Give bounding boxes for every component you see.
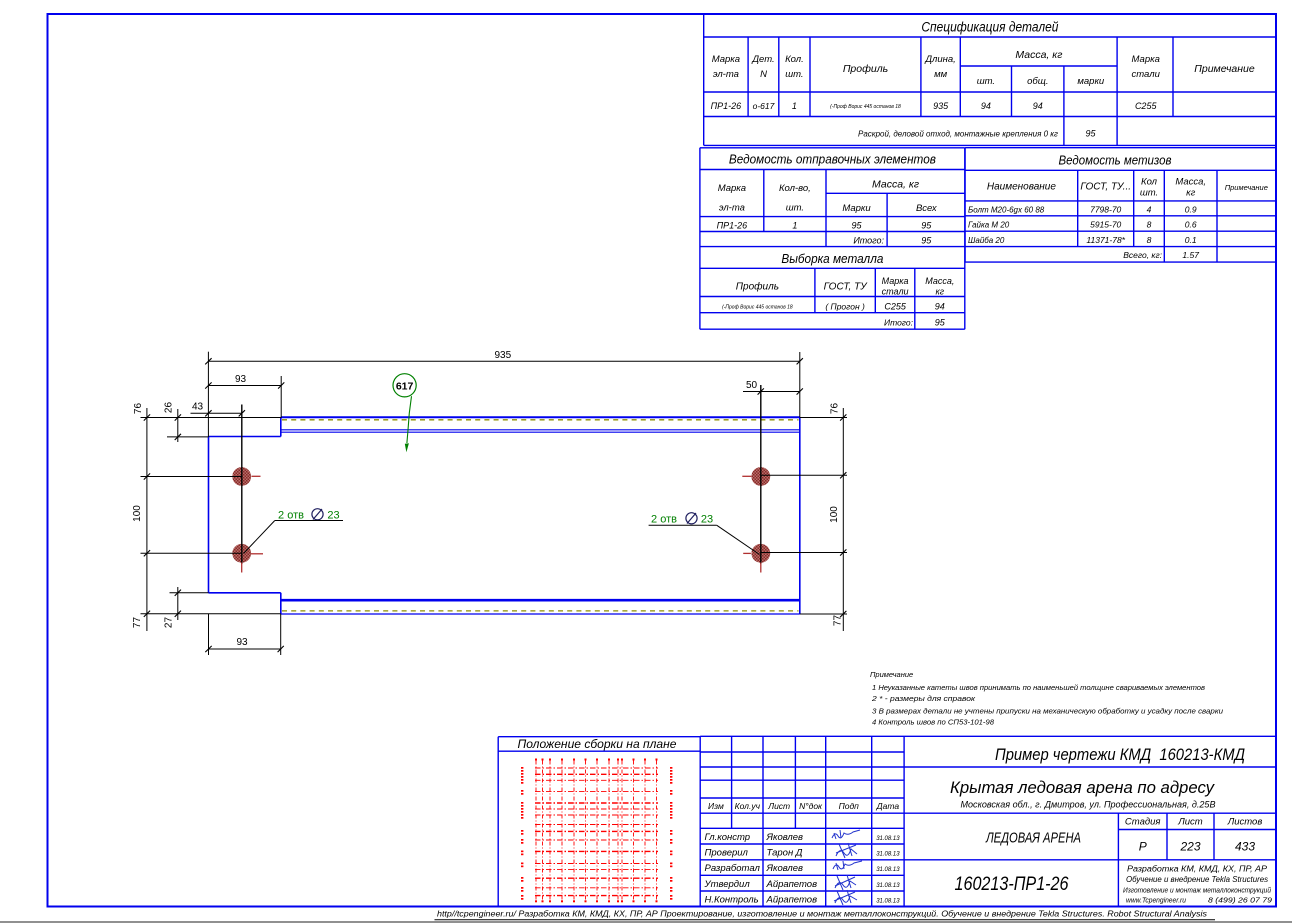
svg-text:100: 100 bbox=[829, 506, 840, 523]
hole crosshair red ticks bbox=[252, 475, 261, 477]
svg-text:кг: кг bbox=[1186, 188, 1195, 199]
svg-text:2 * - размеры для справок: 2 * - размеры для справок bbox=[871, 694, 976, 703]
svg-text:С255: С255 bbox=[884, 302, 907, 312]
svg-text:ГОСТ, ТУ: ГОСТ, ТУ bbox=[824, 282, 869, 293]
svg-text:ГОСТ, ТУ...: ГОСТ, ТУ... bbox=[1080, 182, 1131, 193]
extension lines right bbox=[800, 417, 847, 419]
svg-text:Дата: Дата bbox=[876, 801, 900, 811]
svg-text:Изм: Изм bbox=[708, 801, 724, 811]
svg-text:http//tcpengineer.ru/ Разраб: http//tcpengineer.ru/ Разработка КМ, КМД… bbox=[437, 909, 1208, 919]
svg-text:223: 223 bbox=[1179, 840, 1200, 854]
svg-text:95: 95 bbox=[1085, 129, 1096, 139]
svg-text:Дет.: Дет. bbox=[751, 54, 774, 65]
svg-text:Примечание: Примечание bbox=[870, 670, 913, 679]
svg-text:7798-70: 7798-70 bbox=[1090, 205, 1121, 215]
svg-text:мм: мм bbox=[934, 69, 948, 80]
svg-text:Выборка металла: Выборка металла bbox=[781, 251, 883, 266]
svg-text:(-Проф Ворис 445 останов 18: (-Проф Ворис 445 останов 18 bbox=[830, 104, 901, 110]
svg-text:27: 27 bbox=[164, 617, 175, 629]
svg-text:шт.: шт. bbox=[977, 76, 995, 87]
svg-text:Кол-во,: Кол-во, bbox=[779, 183, 811, 194]
svg-text:Ведомость отправочных элементо: Ведомость отправочных элементов bbox=[729, 152, 936, 167]
svg-text:43: 43 bbox=[192, 401, 204, 412]
box: Положение сборки на плане bbox=[498, 737, 700, 907]
svg-text:Яковлев: Яковлев bbox=[766, 863, 804, 874]
dimension 27 bbox=[177, 587, 179, 620]
signatures (blue scribbles) bbox=[832, 830, 862, 905]
dimension 93 top bbox=[208, 385, 281, 387]
svg-text:Проверил: Проверил bbox=[705, 847, 749, 858]
svg-text:Итого:: Итого: bbox=[853, 236, 884, 246]
svg-text:шт.: шт. bbox=[785, 69, 803, 80]
svg-text:4 Контроль швов по СП53-101-9: 4 Контроль швов по СП53-101-98 bbox=[872, 718, 995, 727]
svg-text:1: 1 bbox=[792, 101, 797, 111]
svg-text:Яковлев: Яковлев bbox=[766, 832, 804, 843]
svg-text:95: 95 bbox=[935, 318, 946, 328]
svg-text:Длина,: Длина, bbox=[924, 54, 955, 65]
bottom grey strip bbox=[0, 921, 1292, 923]
svg-text:1 Неуказанные катеты швов при: 1 Неуказанные катеты швов принимать по н… bbox=[872, 683, 1205, 692]
svg-text:стали: стали bbox=[882, 287, 909, 297]
hole top-left d23 bbox=[232, 467, 251, 486]
svg-text:Раскрой, деловой отход, монтаж: Раскрой, деловой отход, монтажные крепле… bbox=[858, 130, 1058, 139]
svg-text:N°док: N°док bbox=[799, 801, 823, 811]
svg-text:11371-78*: 11371-78* bbox=[1086, 235, 1125, 245]
svg-text:Изготовление и монтаж металлок: Изготовление и монтаж металлоконструкций bbox=[1123, 886, 1272, 895]
svg-text:Марка: Марка bbox=[712, 54, 740, 65]
red grid plan bbox=[535, 761, 658, 900]
svg-text:26: 26 bbox=[164, 402, 175, 414]
svg-text:Утвердил: Утвердил bbox=[704, 879, 751, 890]
svg-text:ЛЕДОВАЯ АРЕНА: ЛЕДОВАЯ АРЕНА bbox=[985, 830, 1081, 847]
svg-text:77: 77 bbox=[833, 615, 844, 627]
svg-text:31.08.13: 31.08.13 bbox=[876, 898, 900, 904]
svg-text:Лист: Лист bbox=[1177, 817, 1203, 828]
svg-text:ПР1-26: ПР1-26 bbox=[717, 220, 748, 230]
svg-text:Спецификация деталей: Спецификация деталей bbox=[921, 20, 1058, 35]
svg-text:0.1: 0.1 bbox=[1185, 235, 1197, 245]
svg-text:31.08.13: 31.08.13 bbox=[876, 883, 900, 889]
svg-text:935: 935 bbox=[494, 350, 511, 361]
svg-text:кг: кг bbox=[935, 287, 944, 297]
svg-text:Р: Р bbox=[1139, 840, 1147, 854]
svg-text:76: 76 bbox=[830, 403, 841, 415]
svg-text:93: 93 bbox=[235, 374, 247, 385]
svg-text:марки: марки bbox=[1077, 76, 1105, 87]
svg-text:ПР1-26: ПР1-26 bbox=[711, 101, 742, 111]
hole bottom-right d23 bbox=[751, 544, 770, 563]
svg-text:Н.Контроль: Н.Контроль bbox=[705, 894, 759, 905]
svg-text:Масса, кг: Масса, кг bbox=[872, 179, 919, 191]
svg-text:Ведомость метизов: Ведомость метизов bbox=[1059, 153, 1172, 168]
svg-text:Тарон Д: Тарон Д bbox=[767, 847, 803, 858]
svg-text:С255: С255 bbox=[1135, 101, 1158, 111]
svg-text:www.Tcpengineer.ru: www.Tcpengineer.ru bbox=[1126, 896, 1187, 905]
svg-text:8 (499) 26 07 79: 8 (499) 26 07 79 bbox=[1208, 896, 1273, 905]
svg-text:Болт М20-6gх 60 88: Болт М20-6gх 60 88 bbox=[968, 206, 1045, 215]
svg-text:Разработал: Разработал bbox=[705, 863, 761, 874]
svg-text:Кол.уч: Кол.уч bbox=[735, 801, 761, 811]
svg-text:Крытая ледовая арена по адресу: Крытая ледовая арена по адресу bbox=[950, 779, 1216, 797]
dimension 50 bbox=[743, 391, 800, 393]
table: Спецификация деталей bbox=[704, 14, 1276, 145]
svg-text:Пример чертежи КМД 160213-КМД: Пример чертежи КМД 160213-КМД bbox=[995, 746, 1245, 764]
hole bottom-left d23 bbox=[232, 544, 251, 563]
hole centerlines bbox=[241, 405, 243, 565]
title block: revision/signature table bbox=[700, 736, 1276, 906]
svg-text:Московская обл., г. Дмитров, у: Московская обл., г. Дмитров, ул. Професс… bbox=[961, 800, 1216, 810]
svg-text:Подп: Подп bbox=[839, 801, 860, 811]
svg-text:Итого:: Итого: bbox=[884, 318, 914, 328]
svg-text:0.6: 0.6 bbox=[1185, 220, 1197, 230]
svg-text:Гайка М 20: Гайка М 20 bbox=[968, 221, 1010, 230]
svg-text:5915-70: 5915-70 bbox=[1090, 220, 1121, 230]
svg-text:Разработка КМ, КМД, КХ, ПР, АР: Разработка КМ, КМД, КХ, ПР, АР bbox=[1127, 865, 1268, 874]
svg-text:Лист: Лист bbox=[767, 801, 790, 811]
svg-text:Кол.: Кол. bbox=[785, 54, 804, 65]
svg-text:Масса,: Масса, bbox=[925, 276, 954, 286]
svg-text:8: 8 bbox=[1147, 235, 1152, 245]
svg-text:Обучение и внедрение Tekla St: Обучение и внедрение Tekla Structures bbox=[1126, 875, 1268, 884]
svg-text:0.9: 0.9 bbox=[1185, 205, 1197, 215]
svg-text:Наименование: Наименование bbox=[987, 182, 1056, 193]
svg-text:Марка: Марка bbox=[882, 276, 909, 286]
svg-text:общ.: общ. bbox=[1027, 76, 1048, 87]
svg-text:31.08.13: 31.08.13 bbox=[876, 851, 900, 857]
svg-text:о-617: о-617 bbox=[753, 101, 775, 111]
svg-text:94: 94 bbox=[935, 302, 945, 312]
dimension 26 bbox=[177, 409, 179, 442]
svg-text:2 отв: 2 отв bbox=[278, 510, 304, 522]
svg-text:Шайба 20: Шайба 20 bbox=[968, 236, 1005, 245]
svg-text:Примечание: Примечание bbox=[1225, 183, 1268, 192]
svg-text:8: 8 bbox=[1147, 220, 1152, 230]
svg-text:Всего, кг:: Всего, кг: bbox=[1123, 250, 1162, 260]
svg-text:Айрапетов: Айрапетов bbox=[766, 894, 818, 905]
svg-text:77: 77 bbox=[132, 617, 143, 629]
svg-text:шт.: шт. bbox=[786, 203, 804, 214]
svg-text:23: 23 bbox=[701, 514, 713, 526]
svg-text:Айрапетов: Айрапетов bbox=[766, 879, 818, 890]
svg-text:31.08.13: 31.08.13 bbox=[876, 867, 900, 873]
svg-text:93: 93 bbox=[236, 637, 248, 648]
svg-text:94: 94 bbox=[981, 101, 991, 111]
detail marker 617 bbox=[393, 374, 416, 397]
svg-text:95: 95 bbox=[921, 236, 932, 246]
svg-text:Стадия: Стадия bbox=[1125, 817, 1161, 828]
svg-text:1.57: 1.57 bbox=[1182, 250, 1199, 260]
svg-text:2 отв: 2 отв bbox=[651, 514, 677, 526]
svg-text:Масса,: Масса, bbox=[1175, 177, 1206, 188]
svg-text:4: 4 bbox=[1147, 205, 1152, 215]
dimension 93 bottom bbox=[209, 648, 281, 650]
svg-text:100: 100 bbox=[132, 505, 143, 522]
svg-text:Масса, кг: Масса, кг bbox=[1015, 49, 1062, 61]
svg-text:( Прогон ): ( Прогон ) bbox=[825, 302, 865, 312]
right dimension line 76/100/77 bbox=[842, 408, 844, 631]
svg-text:94: 94 bbox=[1033, 101, 1043, 111]
svg-text:50: 50 bbox=[746, 380, 758, 391]
svg-text:160213-ПР1-26: 160213-ПР1-26 bbox=[955, 874, 1069, 895]
table: Ведомость метизов bbox=[965, 148, 1275, 262]
svg-text:Примечание: Примечание bbox=[1194, 63, 1255, 75]
svg-text:617: 617 bbox=[396, 380, 414, 392]
dimension 43 bbox=[191, 412, 242, 414]
svg-text:Профиль: Профиль bbox=[843, 63, 888, 75]
svg-text:76: 76 bbox=[133, 403, 144, 415]
svg-text:Листов: Листов bbox=[1227, 817, 1263, 828]
svg-text:шт.: шт. bbox=[1140, 188, 1158, 199]
svg-text:23: 23 bbox=[327, 510, 339, 522]
svg-text:Кол: Кол bbox=[1141, 177, 1158, 188]
dimension 935 bbox=[208, 360, 799, 362]
left dimension line 76/100/77 bbox=[146, 408, 148, 631]
svg-text:Марка: Марка bbox=[1132, 54, 1160, 65]
svg-text:31.08.13: 31.08.13 bbox=[876, 836, 900, 842]
svg-text:Всех: Всех bbox=[916, 203, 938, 214]
svg-text:Гл.констр: Гл.констр bbox=[705, 832, 751, 843]
svg-text:95: 95 bbox=[921, 220, 932, 230]
svg-text:433: 433 bbox=[1235, 840, 1255, 854]
svg-text:Положение сборки на плане: Положение сборки на плане bbox=[518, 739, 677, 751]
svg-text:3 В размерах детали не учтены: 3 В размерах детали не учтены припуски н… bbox=[872, 707, 1224, 716]
svg-text:Марка: Марка bbox=[718, 183, 746, 194]
hole top-right d23 bbox=[751, 467, 770, 486]
svg-text:(-Проф Ворис 445 останов 18: (-Проф Ворис 445 останов 18 bbox=[722, 305, 793, 311]
svg-text:N: N bbox=[760, 69, 767, 80]
plate outline (blue) bbox=[209, 417, 800, 614]
svg-text:95: 95 bbox=[851, 220, 862, 230]
svg-text:эл-та: эл-та bbox=[719, 203, 745, 214]
table: Ведомость отправочных элементов bbox=[700, 148, 965, 329]
svg-text:стали: стали bbox=[1132, 69, 1161, 80]
svg-text:эл-та: эл-та bbox=[713, 69, 739, 80]
svg-text:Профиль: Профиль bbox=[736, 281, 779, 293]
svg-text:Марки: Марки bbox=[842, 203, 871, 214]
bend lines (olive dashed) bbox=[282, 419, 799, 421]
extension lines left bbox=[141, 417, 281, 419]
svg-text:935: 935 bbox=[933, 101, 949, 111]
svg-text:1: 1 bbox=[792, 220, 797, 230]
